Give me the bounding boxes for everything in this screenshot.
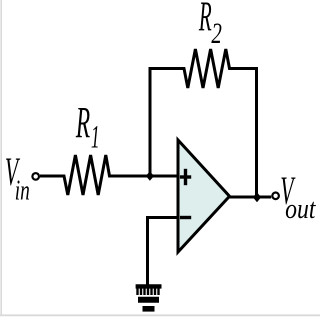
svg-text:in: in <box>15 175 30 207</box>
svg-text:2: 2 <box>211 16 222 50</box>
svg-text:R: R <box>75 98 90 147</box>
svg-text:R: R <box>198 0 211 41</box>
svg-text:out: out <box>285 192 316 225</box>
svg-text:1: 1 <box>91 118 100 155</box>
